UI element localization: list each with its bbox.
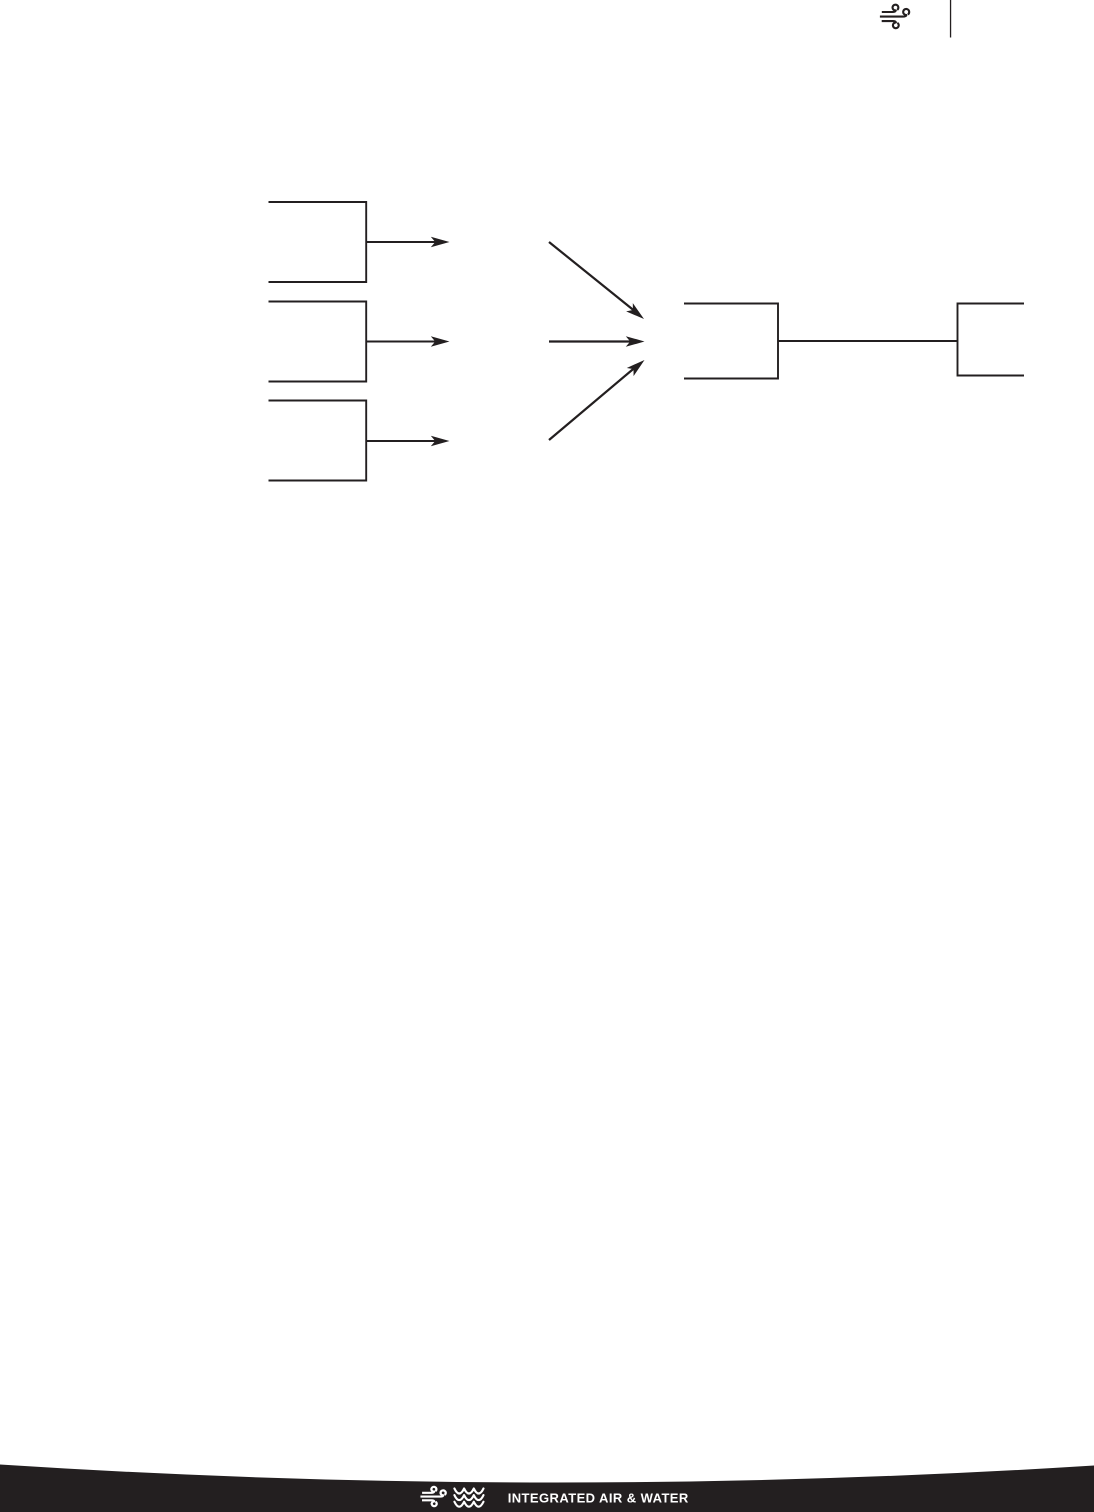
converging arrow middle horizontal: [549, 336, 645, 347]
header wind logo: [880, 5, 909, 29]
connector line center box to right box: [778, 340, 958, 342]
box 2 (open left): [269, 302, 367, 382]
right box (open right): [958, 304, 1025, 376]
converging arrow upper diagonal: [549, 242, 647, 323]
box 1 (open left): [269, 202, 367, 282]
arrow from box 2: [367, 336, 450, 347]
center box (open left): [684, 304, 778, 379]
arrow from box 1: [367, 237, 450, 248]
arrow from box 3: [367, 436, 450, 447]
box 3 (open left): [269, 401, 367, 481]
footer wordmark INTEGRATED AIR & WATER: [508, 1490, 689, 1505]
svg-text:INTEGRATED AIR & WATER: INTEGRATED AIR & WATER: [508, 1490, 689, 1505]
converging arrow lower diagonal: [549, 356, 648, 440]
footer black band with curved top: [0, 1465, 1094, 1512]
footer waves icon: [454, 1489, 483, 1507]
footer wind icon: [420, 1487, 445, 1506]
header divider line: [950, 0, 951, 38]
